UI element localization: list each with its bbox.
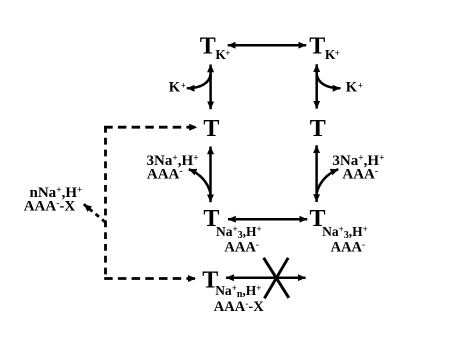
node T_K+ top-left bbox=[200, 33, 231, 62]
wire: dashed horizontal arrow to T (top) bbox=[104, 126, 197, 129]
wire: upper-left vertical double arrow T_K+/T bbox=[209, 65, 212, 110]
node T_Na3,H+ AAA- bottom-left bbox=[203, 206, 261, 256]
wire: curved 3Na+,H+ binding arrow left bbox=[189, 169, 211, 193]
node T_Na3,H+ AAA- bottom-right bbox=[310, 206, 368, 256]
wire: curved 3Na+,H+ binding arrow right bbox=[317, 169, 339, 193]
wire: curved K+ release arrow left bbox=[187, 75, 211, 89]
wire: curved K+ release arrow right bbox=[317, 75, 341, 89]
blocked-cross line 2 bbox=[264, 258, 288, 299]
label K+ left bbox=[169, 80, 186, 96]
node T_K+ top-right bbox=[309, 33, 340, 62]
svg-text:Na+n,H+: Na+n,H+ bbox=[215, 283, 261, 300]
svg-text:AAA--X: AAA--X bbox=[24, 198, 76, 214]
svg-text:T: T bbox=[203, 116, 219, 142]
svg-text:K: K bbox=[169, 80, 181, 96]
svg-text:Na+3,H+: Na+3,H+ bbox=[216, 224, 262, 241]
label nNa+,H+ / AAA--X bbox=[24, 185, 83, 215]
svg-text:T: T bbox=[200, 33, 216, 59]
wire: lower-left vertical double arrow T/T_Na3 bbox=[209, 147, 212, 203]
wire: lower-right vertical double arrow T/T_Na3 bbox=[315, 145, 318, 202]
label 3Na+,H+ / AAA- right bbox=[332, 153, 384, 183]
svg-text:AAA--X: AAA--X bbox=[214, 299, 264, 315]
wire: dashed horizontal arrow to T_Nan (bottom) bbox=[104, 277, 196, 280]
wire: dashed vertical line bbox=[104, 126, 107, 279]
label K+ right bbox=[346, 80, 363, 96]
node T_Nan,H+ AAA--X bottom bbox=[202, 267, 264, 315]
svg-text:AAA-: AAA- bbox=[224, 240, 259, 256]
wire: bottom horizontal double arrow (blocked) bbox=[226, 276, 306, 279]
wire: top horizontal double arrow between T_K+ states bbox=[228, 44, 307, 47]
label 3Na+,H+ / AAA- left bbox=[147, 153, 199, 183]
svg-text:Na+3,H+: Na+3,H+ bbox=[322, 224, 368, 241]
svg-text:T: T bbox=[310, 116, 326, 142]
wire: upper-right vertical double arrow T_K+/T bbox=[315, 64, 318, 108]
wire: dashed diagonal arrow to nNa label bbox=[84, 204, 106, 222]
svg-text:K: K bbox=[346, 80, 358, 96]
svg-text:T: T bbox=[309, 33, 325, 59]
svg-text:+: + bbox=[181, 80, 186, 90]
svg-text:+: + bbox=[225, 48, 230, 58]
svg-text:+: + bbox=[335, 48, 340, 58]
svg-text:+: + bbox=[358, 80, 363, 90]
wire: middle horizontal double arrow between T_Na3 states bbox=[228, 218, 307, 221]
svg-text:AAA-: AAA- bbox=[147, 167, 183, 183]
blocked-cross line 1 bbox=[264, 258, 289, 298]
svg-text:AAA-: AAA- bbox=[331, 240, 366, 256]
svg-text:AAA-: AAA- bbox=[342, 167, 378, 183]
